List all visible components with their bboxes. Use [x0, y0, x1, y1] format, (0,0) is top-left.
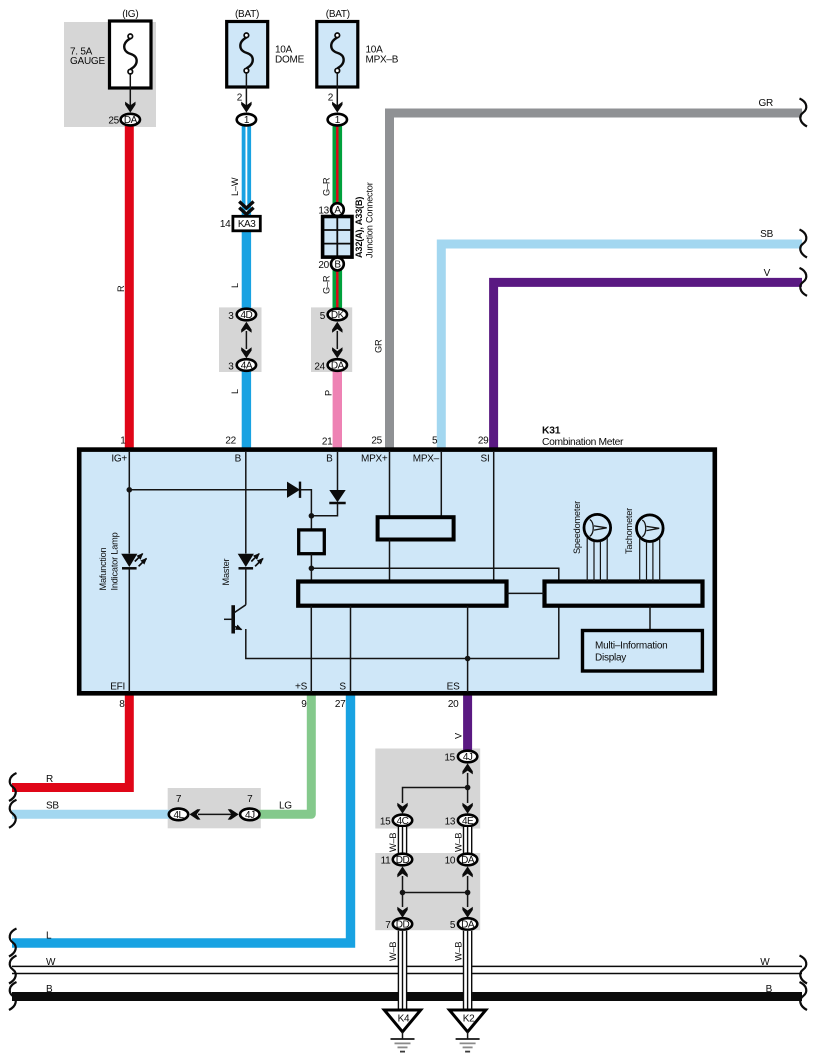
- svg-text:EFI: EFI: [110, 682, 125, 693]
- svg-text:B: B: [766, 984, 773, 995]
- svg-text:DOME: DOME: [275, 54, 305, 65]
- speedometer gauge: [584, 514, 611, 581]
- gray background IG fuse: [64, 22, 156, 127]
- arrow into 4E: [462, 803, 472, 814]
- label 10A DOME: [275, 44, 305, 65]
- label 2 mpx: [328, 93, 334, 104]
- connector oval 4J (meter side): [240, 809, 259, 821]
- label 7 above 4J: [247, 794, 253, 805]
- connector oval 4D: [237, 309, 256, 321]
- connector oval DA (10): [458, 854, 477, 866]
- svg-text:Master: Master: [221, 558, 231, 585]
- arrow below 4J: [462, 763, 472, 774]
- wire IG+ to diode D1: [129, 489, 287, 491]
- svg-text:W–B: W–B: [453, 833, 463, 852]
- multi-information display box: [583, 631, 703, 672]
- wire B pin 21 internal: [337, 452, 339, 490]
- svg-text:9: 9: [301, 699, 307, 710]
- svg-text:GR: GR: [759, 98, 774, 109]
- label SB right: [760, 229, 773, 240]
- wire W bus: [12, 966, 802, 973]
- svg-text:24: 24: [314, 361, 325, 372]
- label 25: [108, 115, 119, 126]
- label W-B right lower: [453, 942, 463, 961]
- wire ES pin 20 internal: [467, 606, 469, 692]
- wire break V right: [800, 268, 808, 296]
- svg-text:25: 25: [371, 436, 382, 447]
- label SB horizontal: [46, 801, 59, 812]
- wire IC1 to IC2: [507, 592, 544, 594]
- svg-text:MPX–B: MPX–B: [366, 54, 399, 65]
- connector oval DD (11): [393, 854, 412, 866]
- gray background connector 4D/4A: [219, 307, 262, 372]
- wire SI pin 29 internal: [493, 452, 495, 581]
- fuse 10A MPX-B: [317, 22, 358, 112]
- connector oval 4E: [458, 815, 477, 827]
- wire MPX+ pin 25 internal: [389, 452, 391, 516]
- svg-text:L: L: [46, 931, 52, 942]
- tachometer gauge: [637, 515, 664, 581]
- label B right: [766, 984, 773, 995]
- wire B pin 22 internal: [245, 452, 247, 554]
- svg-text:7: 7: [247, 794, 253, 805]
- svg-text:29: 29: [478, 436, 489, 447]
- ground K4: [384, 1010, 420, 1052]
- wire break R left: [9, 773, 17, 801]
- connector circle B: [331, 258, 344, 271]
- label 13: [318, 206, 329, 217]
- wire break GR right: [800, 99, 808, 127]
- wire U3 output to IC1: [389, 540, 391, 582]
- label W right: [760, 957, 770, 968]
- svg-text:20: 20: [318, 260, 329, 271]
- svg-text:5: 5: [320, 311, 326, 322]
- meter pin numbers top: [120, 436, 489, 448]
- fuse 10A DOME: [227, 22, 268, 112]
- label R vertical: [116, 285, 126, 292]
- wire LED2 to transistor Q1: [245, 568, 247, 605]
- svg-text:DA: DA: [461, 855, 475, 866]
- svg-text:A32(A), A33(B): A32(A), A33(B): [354, 197, 364, 258]
- wire W-B DD to ground K4: [398, 931, 407, 1010]
- label 11: [381, 855, 392, 866]
- svg-text:Tachometer: Tachometer: [624, 508, 634, 554]
- wire +S pin 9 internal: [310, 606, 312, 692]
- svg-text:DA: DA: [124, 115, 138, 126]
- malfunction indicator lamp LED1: [121, 554, 146, 569]
- svg-text:L: L: [230, 283, 240, 288]
- connector KA3: [233, 216, 260, 231]
- arrow into DA lower: [462, 907, 472, 918]
- transistor Q1: [224, 605, 246, 634]
- arrows between 4D and 4A: [241, 322, 251, 359]
- svg-text:4L: 4L: [173, 810, 184, 821]
- wire emitter to driver box: [246, 607, 559, 659]
- svg-text:GAUGE: GAUGE: [70, 56, 105, 67]
- svg-text:G–R: G–R: [322, 177, 332, 196]
- label V right: [764, 268, 771, 279]
- svg-text:W–B: W–B: [388, 942, 398, 961]
- svg-text:W: W: [760, 957, 770, 968]
- svg-text:L–W: L–W: [230, 177, 240, 196]
- wire diode D1 to node: [300, 490, 311, 516]
- svg-text:(IG): (IG): [122, 9, 138, 20]
- meter pin labels top inside: [111, 454, 489, 465]
- label 15 above 4C: [380, 816, 391, 827]
- label P: [324, 390, 334, 396]
- svg-text:+S: +S: [295, 682, 308, 693]
- svg-text:GR: GR: [374, 339, 384, 353]
- resistor box U2: [299, 530, 325, 554]
- gray background connector 4L/4J: [168, 788, 261, 828]
- svg-text:27: 27: [335, 699, 346, 710]
- label 5 dk: [320, 311, 326, 322]
- label 10: [445, 855, 456, 866]
- svg-text:DD: DD: [396, 855, 410, 866]
- svg-text:4D: 4D: [241, 310, 253, 321]
- label Tachometer: [624, 508, 634, 554]
- wire break B left: [9, 982, 17, 1010]
- svg-text:B: B: [46, 984, 53, 995]
- svg-text:ES: ES: [447, 682, 460, 693]
- svg-text:4A: 4A: [241, 360, 253, 371]
- svg-text:14: 14: [220, 219, 231, 230]
- label (BAT) dome: [235, 9, 259, 20]
- arrow below DD: [397, 866, 407, 877]
- connector oval 4J (harness): [458, 751, 477, 763]
- label 20: [318, 260, 329, 271]
- label L horizontal: [46, 931, 52, 942]
- svg-text:Combination Meter: Combination Meter: [542, 437, 624, 448]
- label K31 Combination Meter: [542, 426, 624, 448]
- node diode junction: [309, 513, 315, 519]
- label Master: [221, 558, 231, 585]
- svg-text:(BAT): (BAT): [235, 9, 259, 20]
- label G-R upper: [322, 177, 332, 196]
- label GR vertical: [374, 339, 384, 353]
- wire R from fuse to pin 1: [125, 126, 134, 452]
- wire R from pin 8 EFI to left edge: [12, 692, 129, 788]
- svg-text:3: 3: [228, 311, 234, 322]
- svg-text:5: 5: [450, 920, 456, 931]
- label (BAT) mpx: [326, 9, 350, 20]
- label L upper: [230, 283, 240, 288]
- label GR right: [759, 98, 774, 109]
- label 14: [220, 219, 231, 230]
- wire break SB left: [9, 800, 17, 828]
- svg-text:11: 11: [381, 855, 392, 866]
- svg-text:MPX–: MPX–: [413, 454, 440, 465]
- label W-B left upper: [388, 833, 398, 852]
- svg-text:8: 8: [119, 699, 125, 710]
- wire SB from left edge to connector 4L: [12, 810, 171, 819]
- gray background connector DK/DA: [311, 307, 352, 372]
- connector oval DK: [328, 309, 347, 321]
- svg-text:W–B: W–B: [453, 942, 463, 961]
- wire break B right: [800, 982, 808, 1010]
- svg-text:DA: DA: [461, 919, 475, 930]
- controller box IC1: [298, 582, 506, 606]
- label L lower: [230, 389, 240, 394]
- svg-text:Speedometer: Speedometer: [572, 501, 582, 554]
- svg-text:R: R: [116, 285, 126, 292]
- meter pin numbers bottom: [119, 699, 459, 710]
- connector oval 4A: [237, 359, 256, 371]
- node junction on IG+ line: [127, 487, 133, 493]
- svg-text:W–B: W–B: [388, 833, 398, 852]
- connector oval DD (7): [393, 918, 412, 930]
- label 10A MPX-B: [366, 44, 399, 65]
- meter pin labels bottom inside: [110, 682, 460, 693]
- arrow below DA: [462, 866, 472, 877]
- svg-text:KA3: KA3: [238, 219, 256, 230]
- svg-text:LG: LG: [279, 801, 292, 812]
- svg-text:SB: SB: [760, 229, 773, 240]
- wire EFI pin 8 internal: [128, 568, 130, 692]
- wire W-B 4C to DD: [398, 827, 407, 854]
- label 3 upper: [228, 311, 234, 322]
- label LG: [279, 801, 292, 812]
- arrow into DD lower: [397, 907, 407, 918]
- label 2 dome: [237, 93, 243, 104]
- wire LG from connector 4J to pin 9: [259, 692, 312, 814]
- svg-text:SB: SB: [46, 801, 59, 812]
- label 7 lower: [385, 920, 391, 931]
- label V vertical: [454, 732, 464, 739]
- svg-text:Indicator Lamp: Indicator Lamp: [110, 532, 120, 590]
- wire G-R from MPX-B fuse to junction A: [332, 126, 342, 204]
- wire L from connector 4A to pin 22: [242, 370, 251, 452]
- label Speedometer: [572, 501, 582, 554]
- svg-text:20: 20: [448, 699, 459, 710]
- gray background connector 4J/4C/4E: [375, 749, 480, 829]
- connector oval 1 dome: [237, 114, 256, 126]
- label L-W: [230, 177, 240, 196]
- svg-text:Junction Connector: Junction Connector: [365, 182, 375, 258]
- svg-text:B: B: [235, 454, 242, 465]
- svg-text:4E: 4E: [462, 816, 474, 827]
- wire GR from right edge to pin 25: [390, 113, 803, 452]
- driver box IC2: [545, 582, 703, 606]
- svg-text:W: W: [46, 957, 56, 968]
- label Mafunction Indicator Lamp: [98, 532, 120, 590]
- wire node to driver box: [311, 568, 558, 580]
- wire L-W from DOME fuse to KA3: [242, 126, 251, 218]
- connector oval DA (IG): [121, 114, 140, 126]
- svg-text:7: 7: [176, 794, 182, 805]
- svg-text:B: B: [334, 259, 341, 270]
- arrow into connector DA: [125, 102, 135, 113]
- wire V from right edge to pin 29: [494, 282, 802, 452]
- svg-text:15: 15: [444, 752, 455, 763]
- connector oval 4C: [393, 815, 412, 827]
- svg-text:DD: DD: [396, 919, 410, 930]
- wire IC2 to multi-information display: [649, 606, 651, 630]
- wire IG+ pin 1 internal: [128, 452, 130, 554]
- wire resistor to IC1: [310, 554, 312, 580]
- svg-text:4C: 4C: [397, 816, 409, 827]
- wire diode D2 to node: [311, 503, 337, 516]
- label 15 above 4J: [444, 752, 455, 763]
- label A32(A), A33(B) Junction Connector: [354, 182, 375, 258]
- wire MPX- pin 5 internal: [440, 452, 442, 516]
- svg-text:22: 22: [225, 436, 236, 447]
- wire S pin 27 internal: [350, 606, 352, 692]
- svg-text:4J: 4J: [463, 752, 473, 763]
- wire P from connector DA to pin 21: [333, 370, 342, 452]
- label 24: [314, 361, 325, 372]
- svg-text:L: L: [230, 389, 240, 394]
- label B left: [46, 984, 53, 995]
- label (IG): [122, 9, 138, 20]
- combination meter K31 box: [79, 450, 715, 694]
- label W-B right upper: [453, 833, 463, 852]
- svg-text:2: 2: [328, 93, 334, 104]
- arrows between DK and DA: [332, 322, 342, 359]
- master LED2: [238, 554, 263, 569]
- wire SB from right edge to pin 5: [441, 244, 802, 452]
- label 7.5A GAUGE: [70, 47, 105, 68]
- wire break W left: [9, 956, 17, 984]
- svg-text:R: R: [46, 774, 53, 785]
- svg-text:Multi–Information: Multi–Information: [595, 641, 667, 652]
- svg-text:G–R: G–R: [322, 275, 332, 294]
- node resistor output: [309, 566, 315, 572]
- svg-text:K2: K2: [463, 1013, 475, 1024]
- arrow into connector 1 mpx: [332, 102, 342, 113]
- svg-text:A: A: [334, 205, 341, 216]
- connector oval DA (5): [458, 918, 477, 930]
- label 3 lower: [228, 361, 234, 372]
- wire DD/DA join: [400, 876, 471, 907]
- label W-B left lower: [388, 942, 398, 961]
- svg-text:4J: 4J: [245, 810, 255, 821]
- connector oval 4L: [169, 809, 188, 821]
- svg-text:V: V: [764, 268, 771, 279]
- wire break L left: [9, 929, 17, 957]
- svg-text:1: 1: [120, 436, 126, 447]
- svg-text:IG+: IG+: [111, 454, 127, 465]
- svg-text:13: 13: [445, 816, 456, 827]
- diode D1: [287, 482, 300, 498]
- wire V from pin 20 to connector 4J: [463, 692, 472, 751]
- wire B bus: [12, 992, 802, 1001]
- label 13 above 4E: [445, 816, 456, 827]
- fuse 7.5A GAUGE: [110, 21, 152, 111]
- svg-text:10: 10: [445, 855, 456, 866]
- arrow into 4C: [397, 803, 407, 814]
- svg-text:21: 21: [322, 437, 333, 448]
- label R horizontal: [46, 774, 53, 785]
- svg-text:25: 25: [108, 115, 119, 126]
- svg-text:5: 5: [432, 436, 438, 447]
- wire 4J to 4C/4E branch: [403, 773, 471, 803]
- junction connector A32(A), A33(B): [323, 217, 352, 258]
- svg-text:DK: DK: [331, 310, 345, 321]
- connector circle A: [331, 203, 344, 216]
- svg-text:MPX+: MPX+: [361, 454, 388, 465]
- gray background connector DD/DA: [375, 853, 480, 930]
- svg-text:(BAT): (BAT): [326, 9, 350, 20]
- wire W-B DA to ground K2: [463, 931, 472, 1010]
- connector oval DA (24): [328, 359, 347, 371]
- wire break SB right: [800, 230, 808, 258]
- wire break W right: [800, 956, 808, 984]
- wire L from KA3 to connector 4D: [242, 229, 251, 310]
- node ES junction: [465, 656, 471, 662]
- svg-text:Display: Display: [595, 653, 626, 664]
- svg-text:S: S: [339, 682, 346, 693]
- svg-text:3: 3: [228, 361, 234, 372]
- svg-text:15: 15: [380, 816, 391, 827]
- arrow into connector 1 dome: [241, 102, 251, 113]
- wire L from pin 27 to left edge: [12, 692, 351, 943]
- svg-text:7: 7: [385, 920, 391, 931]
- mpx receiver box U3: [378, 517, 454, 539]
- svg-text:K4: K4: [398, 1013, 410, 1024]
- diode D2: [329, 490, 345, 503]
- label 5 lower: [450, 920, 456, 931]
- svg-text:DA: DA: [331, 360, 345, 371]
- label 7 above 4L: [176, 794, 182, 805]
- wire node to resistor box: [310, 516, 312, 529]
- arrows between 4L and 4J: [190, 809, 239, 819]
- wire W-B 4E to DA: [463, 827, 472, 854]
- connector oval 1 mpx: [328, 114, 347, 126]
- svg-text:P: P: [324, 390, 334, 396]
- svg-text:Mafunction: Mafunction: [98, 547, 108, 590]
- shield chevrons above KA3: [239, 202, 253, 215]
- ground K2: [449, 1010, 485, 1052]
- svg-text:K31: K31: [542, 426, 561, 437]
- label G-R lower: [322, 275, 332, 294]
- svg-text:B: B: [326, 454, 333, 465]
- label W left: [46, 957, 56, 968]
- wire G-R from junction B to connector DK: [332, 270, 342, 310]
- svg-text:SI: SI: [481, 454, 490, 465]
